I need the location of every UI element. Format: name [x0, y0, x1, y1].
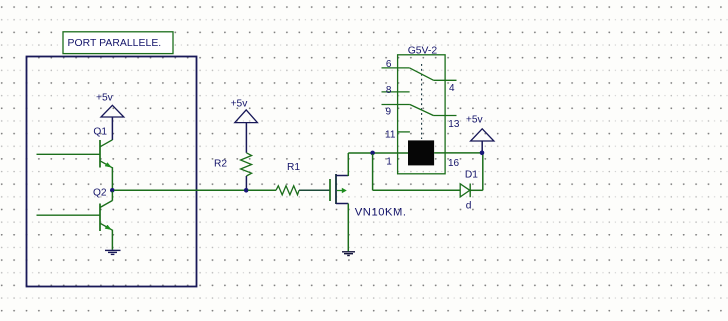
- resistor R1: [276, 162, 300, 195]
- wire: node to R2 node: [114, 189, 244, 191]
- wire: drain up and to relay pin 1: [347, 153, 349, 176]
- svg-text:11: 11: [385, 129, 396, 140]
- wire: junction down to diode row: [372, 154, 374, 190]
- pin 9: [382, 104, 410, 106]
- svg-text:+5v: +5v: [96, 93, 114, 104]
- svg-text:+5v: +5v: [466, 115, 484, 126]
- pin 16 wire to +5v junction: [434, 152, 482, 154]
- pin 8: [382, 91, 410, 93]
- port rectangle: [27, 57, 197, 287]
- label box PORT PARALLELE: [63, 32, 173, 54]
- pin 13: [433, 115, 456, 117]
- svg-text:R1: R1: [287, 162, 300, 173]
- wire: R2 node to R1: [248, 189, 276, 191]
- pin 6: [382, 67, 410, 69]
- resistor R2: [214, 153, 252, 189]
- svg-text:PORT PARALLELE.: PORT PARALLELE.: [68, 38, 162, 49]
- wire: diode to +5v riser: [470, 189, 483, 191]
- svg-text:Q2: Q2: [93, 187, 107, 198]
- pin 4: [434, 79, 457, 81]
- power +5v supply 2 (above R2): [231, 99, 258, 153]
- svg-text:8: 8: [386, 85, 392, 96]
- svg-text:9: 9: [386, 107, 392, 118]
- wire: source down to ground: [347, 204, 349, 252]
- svg-text:VN10KM.: VN10KM.: [355, 206, 407, 218]
- dashed actuator line: [421, 64, 423, 139]
- transistor Q2: [37, 187, 113, 250]
- svg-text:Q1: Q1: [93, 127, 107, 138]
- power +5v supply 1 (above Q1): [96, 93, 124, 140]
- wire: R1 to gate: [299, 189, 330, 191]
- svg-text:D1: D1: [465, 169, 478, 180]
- coil: [408, 140, 434, 165]
- pin 11: [398, 131, 410, 133]
- ground (below MOSFET): [342, 252, 355, 256]
- contact 6-4: [410, 68, 434, 80]
- svg-text:d: d: [466, 201, 472, 212]
- node: pin16 / +5v / diode junction: [480, 151, 485, 156]
- node: Q1 emitter / Q2 collector junction: [110, 188, 115, 193]
- node: drain / relay pin1 / diode junction: [370, 151, 375, 156]
- relay G5V-2: [382, 46, 482, 174]
- contact 9-13: [410, 105, 434, 116]
- ground (below Q2): [105, 250, 121, 254]
- svg-text:+5v: +5v: [231, 99, 249, 110]
- svg-text:R2: R2: [214, 159, 227, 170]
- power +5v supply 3 (right): [466, 115, 494, 153]
- svg-text:4: 4: [449, 83, 455, 94]
- transistor (MOSFET) VN10KM: [330, 174, 407, 218]
- svg-text:16: 16: [448, 158, 460, 169]
- transistor Q1: [37, 127, 113, 189]
- svg-text:13: 13: [448, 119, 460, 130]
- node: R2 bottom on main wire: [244, 188, 249, 193]
- svg-text:1: 1: [386, 156, 392, 167]
- svg-text:6: 6: [386, 59, 392, 70]
- wire: diode row horizontal: [373, 189, 460, 191]
- diode D1: [460, 169, 478, 211]
